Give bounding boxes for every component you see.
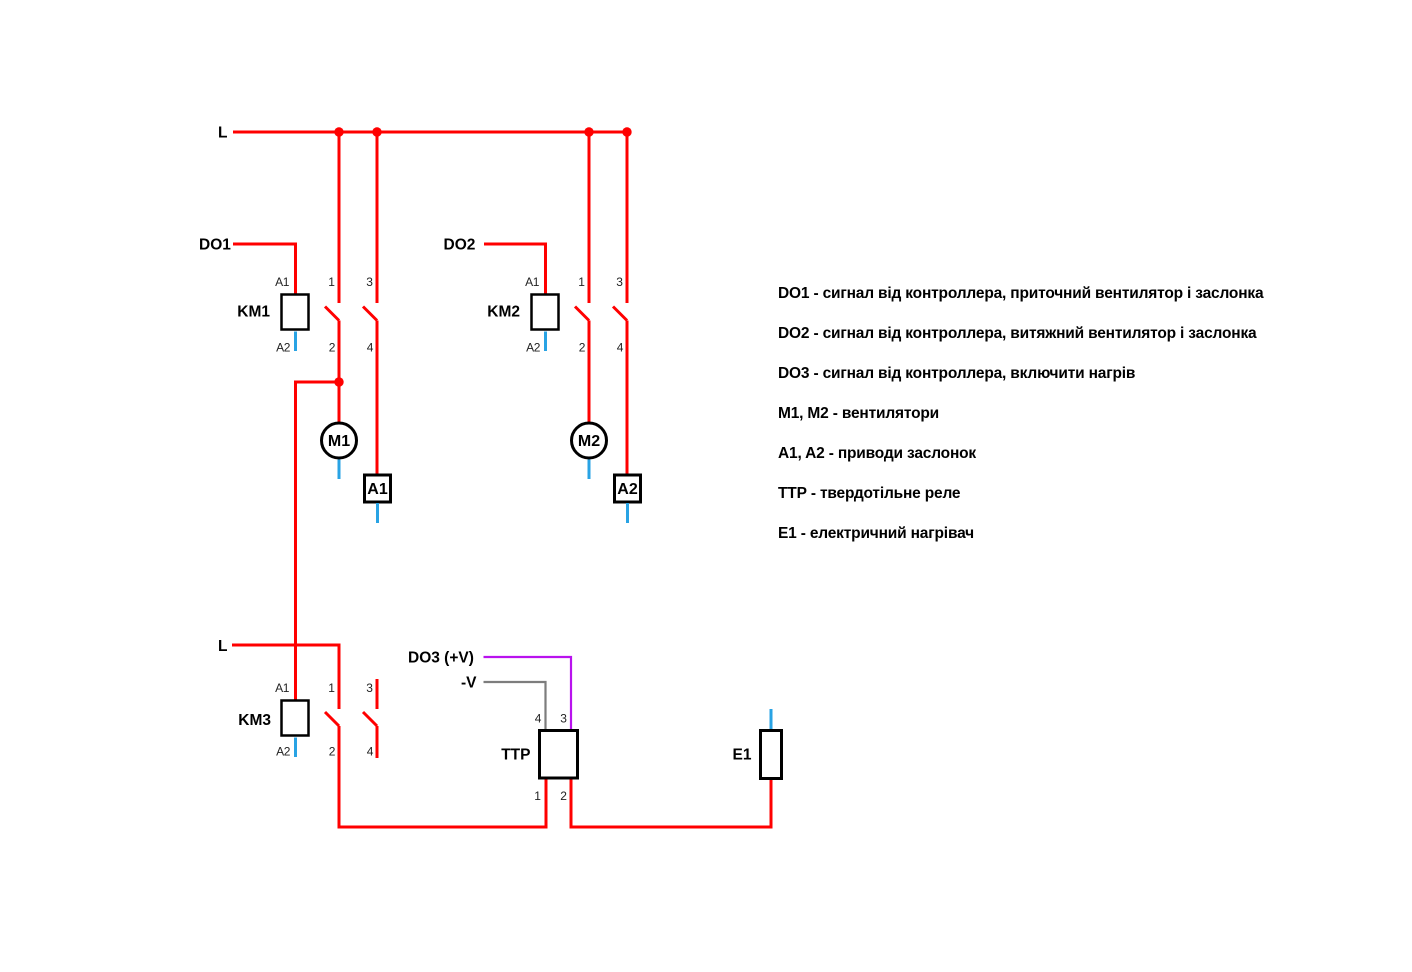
- svg-text:KM1: KM1: [237, 304, 270, 321]
- node junction dot bus/KM2 pin1: [584, 127, 593, 136]
- svg-text:3: 3: [366, 681, 373, 695]
- svg-text:-V: -V: [461, 675, 477, 692]
- wire L bottom bus to KM3 contact 1: [232, 645, 339, 709]
- svg-text:E1 - електричний нагрівач: E1 - електричний нагрівач: [778, 525, 974, 542]
- svg-text:A1, A2 - приводи заслонок: A1, A2 - приводи заслонок: [778, 445, 976, 462]
- wire M1 bottom stub (blue): [338, 460, 341, 480]
- svg-text:3: 3: [366, 275, 373, 289]
- wire TTP pin 2 to heater E1: [571, 780, 771, 828]
- svg-text:DO1 - сигнал від контроллера,: DO1 - сигнал від контроллера, приточний …: [778, 285, 1264, 302]
- wire junction to KM3 coil A1: [296, 382, 340, 700]
- svg-text:3: 3: [560, 712, 567, 726]
- svg-text:ТТР - твердотільне реле: ТТР - твердотільне реле: [778, 485, 961, 502]
- svg-text:KM3: KM3: [238, 712, 271, 729]
- svg-text:DO2: DO2: [444, 237, 476, 254]
- contact KM1 1-2: [325, 132, 339, 423]
- wire KM1 coil A2 stub (blue): [294, 332, 297, 352]
- coil KM2: [532, 295, 559, 330]
- wire L top bus: [233, 131, 627, 134]
- svg-text:1: 1: [534, 789, 541, 803]
- wire DO3 (purple) to TTP pin 3: [484, 657, 572, 730]
- node junction dot bus/KM1 pin3: [372, 127, 381, 136]
- actuator A1: [365, 475, 391, 502]
- svg-text:A2: A2: [617, 481, 638, 498]
- contact KM1 3-4: [363, 132, 377, 475]
- svg-text:DO1: DO1: [199, 237, 231, 254]
- svg-text:A2: A2: [276, 341, 291, 355]
- svg-text:A1: A1: [275, 681, 290, 695]
- svg-text:KM2: KM2: [487, 304, 520, 321]
- svg-text:DO2 - сигнал від контроллера,: DO2 - сигнал від контроллера, витяжний в…: [778, 325, 1257, 342]
- coil KM3: [282, 701, 309, 736]
- wire DO2 to KM2 coil A1: [484, 244, 546, 294]
- wire KM3 coil A2 stub (blue): [294, 738, 297, 758]
- coil KM1: [282, 295, 309, 330]
- heater E1: [761, 731, 782, 779]
- svg-text:M2: M2: [578, 433, 600, 450]
- svg-text:A1: A1: [275, 275, 290, 289]
- solid state relay TTP: [540, 731, 578, 779]
- wire A2 bottom stub (blue): [626, 503, 629, 523]
- contact KM2 1-2: [575, 132, 589, 423]
- contact KM3 1-2 and wire to TTP pin 1: [325, 712, 546, 827]
- svg-text:4: 4: [367, 745, 374, 759]
- svg-text:4: 4: [367, 341, 374, 355]
- wire KM2 coil A2 stub (blue): [544, 332, 547, 352]
- wire M2 bottom stub (blue): [588, 460, 591, 480]
- svg-text:E1: E1: [733, 747, 752, 764]
- svg-text:4: 4: [535, 712, 542, 726]
- wire A1 bottom stub (blue): [376, 503, 379, 523]
- svg-text:A2: A2: [276, 745, 291, 759]
- svg-text:2: 2: [560, 789, 567, 803]
- svg-text:L: L: [218, 125, 227, 142]
- contact KM3 3-4 (unconnected): [363, 679, 377, 758]
- svg-text:4: 4: [617, 341, 624, 355]
- svg-text:A1: A1: [525, 275, 540, 289]
- svg-text:DO3 (+V): DO3 (+V): [408, 650, 474, 667]
- svg-text:2: 2: [579, 341, 586, 355]
- svg-text:1: 1: [328, 275, 335, 289]
- node junction dot bus/KM1 pin1: [334, 127, 343, 136]
- node junction dot bus/KM2 pin3: [622, 127, 631, 136]
- actuator A2: [615, 475, 641, 502]
- contact KM2 3-4: [613, 132, 627, 475]
- svg-text:2: 2: [329, 341, 336, 355]
- wire E1 top stub (blue): [770, 709, 773, 729]
- svg-text:2: 2: [329, 745, 336, 759]
- svg-text:M1: M1: [328, 433, 350, 450]
- wire -V (gray) to TTP pin 4: [484, 682, 546, 730]
- motor M1: [322, 423, 357, 458]
- svg-text:3: 3: [616, 275, 623, 289]
- wire DO1 to KM1 coil A1: [233, 244, 296, 294]
- svg-text:M1, M2 - вентилятори: M1, M2 - вентилятори: [778, 405, 939, 422]
- svg-text:1: 1: [328, 681, 335, 695]
- node junction dot below KM1 contact 2: [334, 377, 343, 386]
- svg-text:A1: A1: [367, 481, 388, 498]
- svg-text:A2: A2: [526, 341, 541, 355]
- svg-text:DO3 - сигнал від контроллера,: DO3 - сигнал від контроллера, включити н…: [778, 365, 1135, 382]
- motor M2: [572, 423, 607, 458]
- svg-text:ТТР: ТТР: [501, 747, 530, 764]
- svg-text:1: 1: [578, 275, 585, 289]
- svg-text:L: L: [218, 638, 227, 655]
